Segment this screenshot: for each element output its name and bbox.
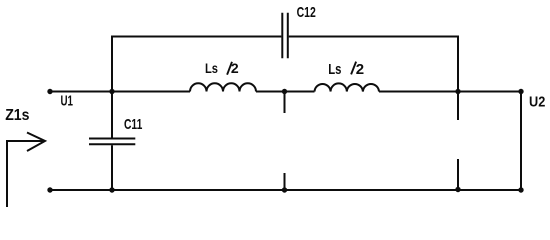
- svg-text:Ls: Ls: [205, 60, 218, 76]
- svg-text:2: 2: [356, 61, 364, 78]
- svg-text:C12: C12: [297, 5, 316, 21]
- svg-text:C11: C11: [124, 117, 142, 133]
- svg-text:U1: U1: [61, 93, 74, 109]
- svg-text:Z1s: Z1s: [5, 107, 29, 124]
- svg-text:U2: U2: [529, 95, 545, 111]
- svg-text:Ls: Ls: [328, 61, 341, 78]
